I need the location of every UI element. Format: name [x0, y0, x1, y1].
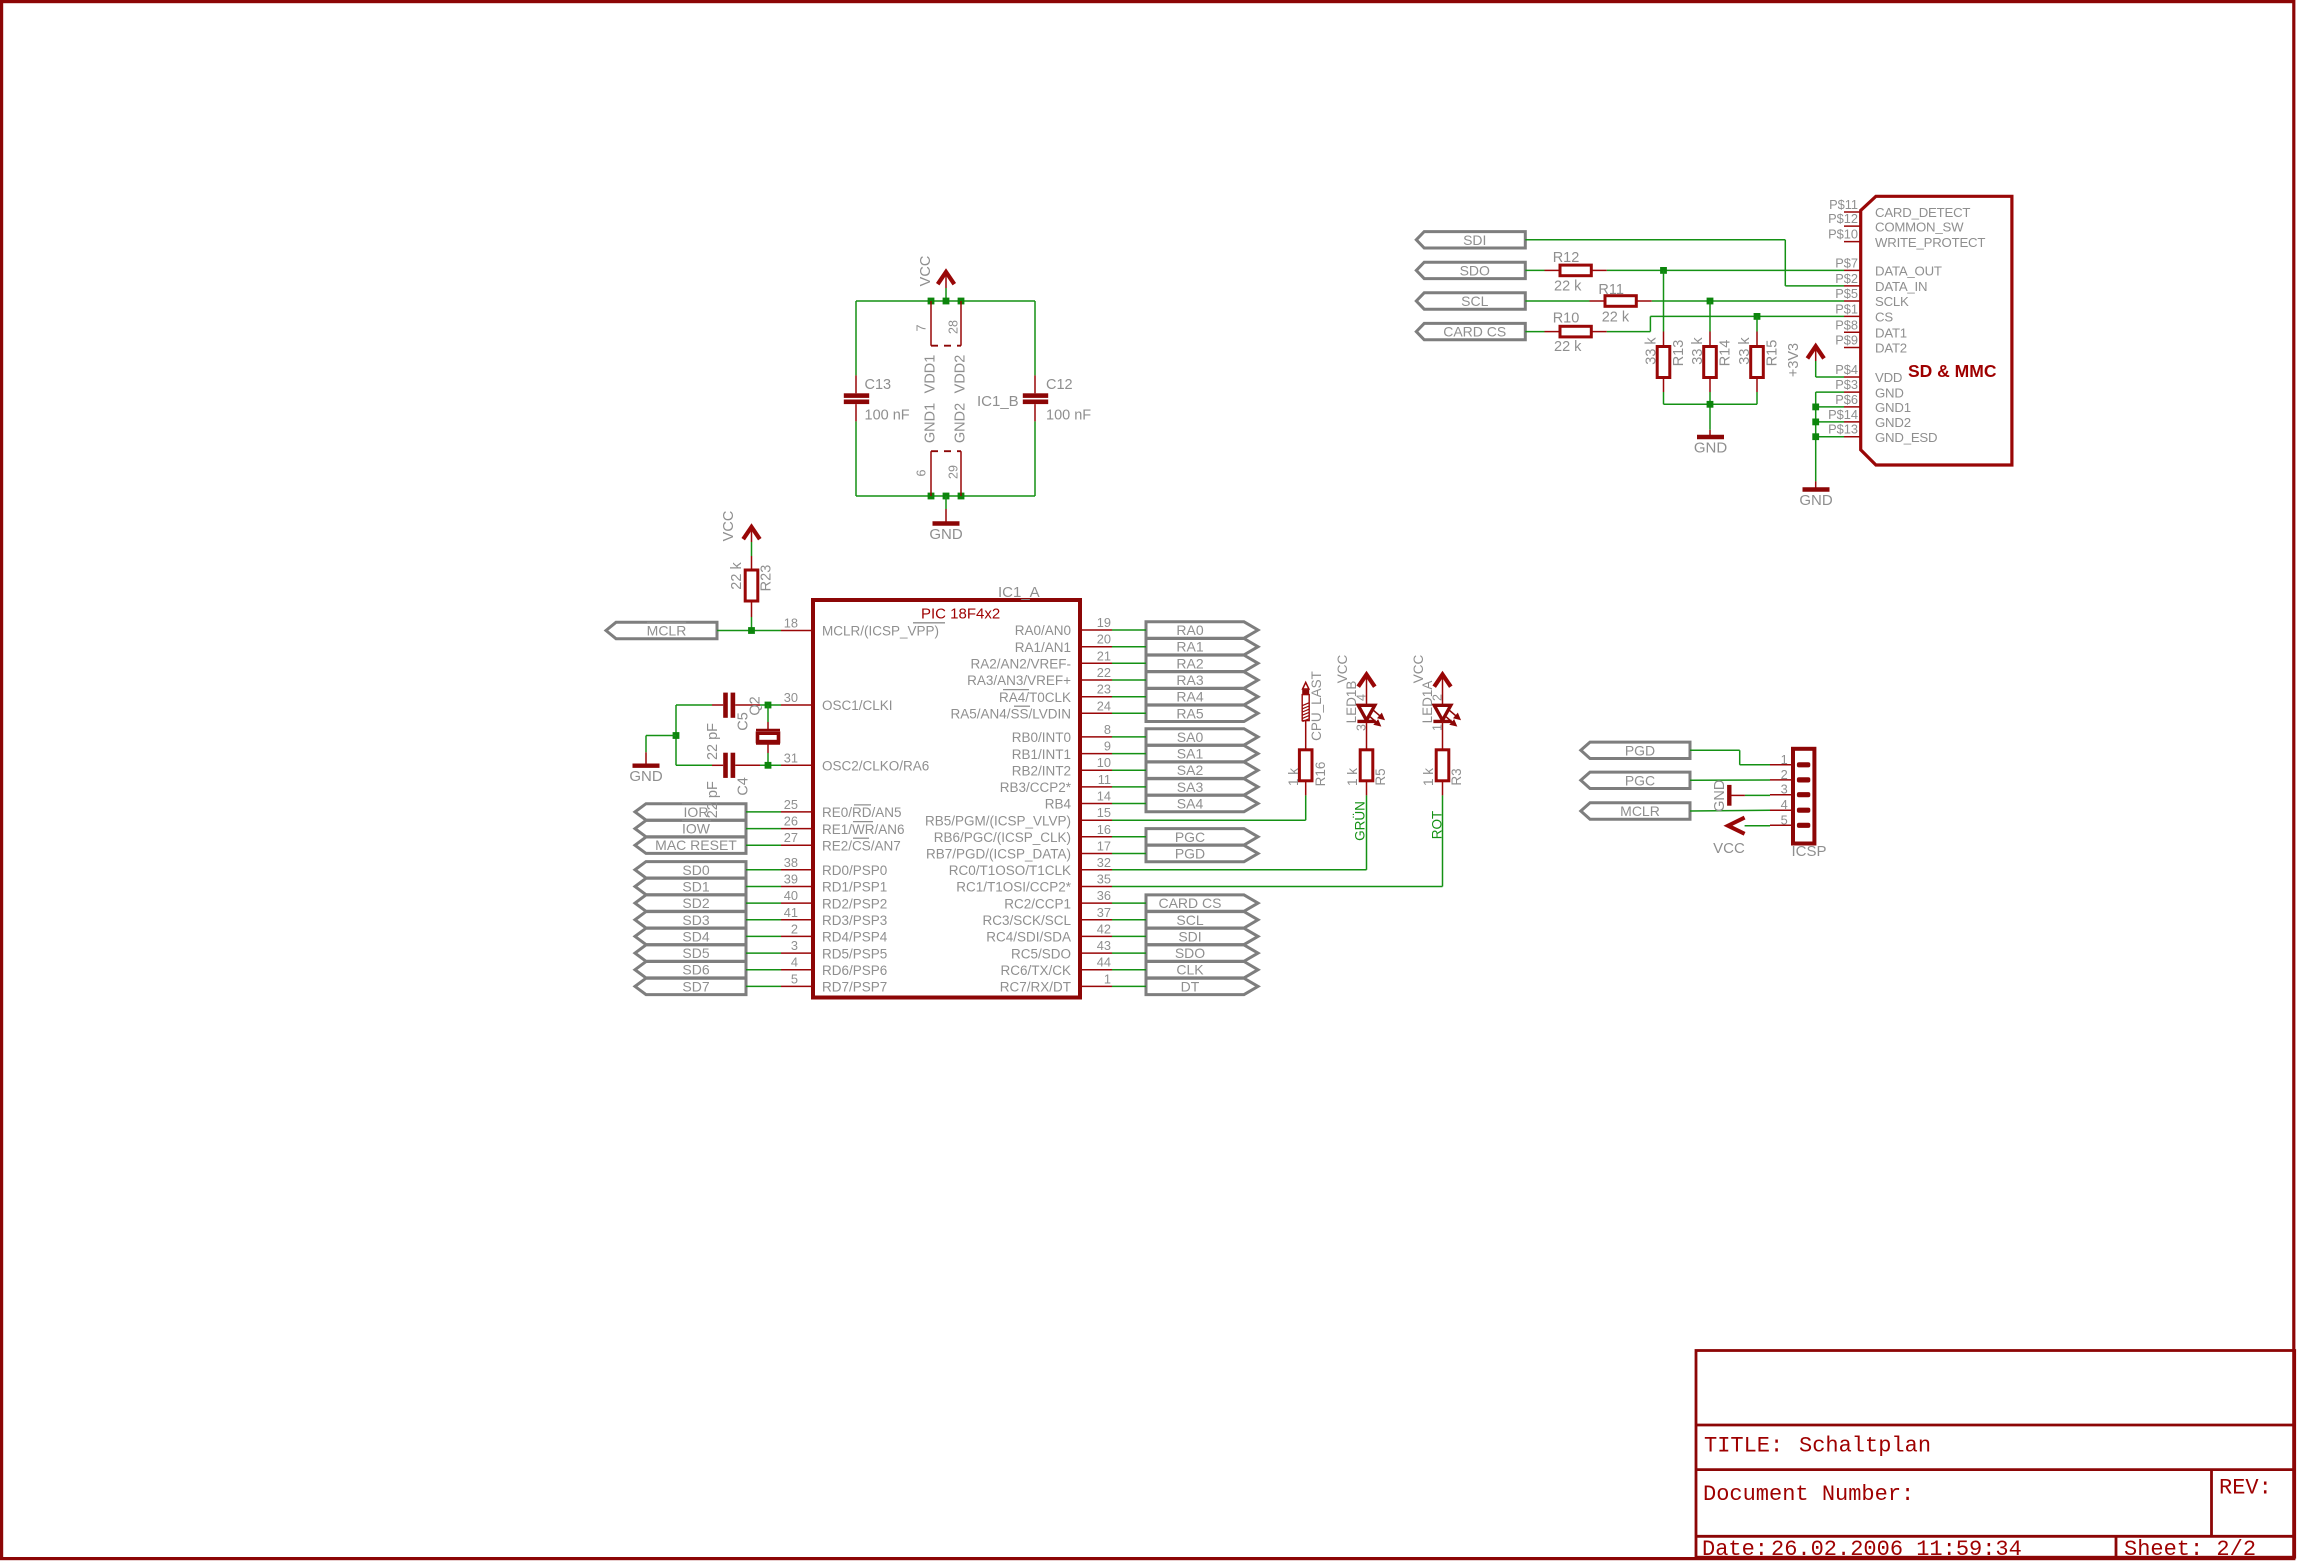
svg-text:RC3/SCK/SCL: RC3/SCK/SCL: [982, 913, 1071, 928]
power symbol VCC above R23: [721, 511, 760, 556]
svg-text:SD3: SD3: [682, 912, 709, 928]
node SDO flag: [1146, 945, 1258, 961]
svg-text:R5: R5: [1373, 768, 1388, 785]
svg-text:RA1: RA1: [1176, 639, 1203, 655]
svg-text:11: 11: [1098, 772, 1111, 787]
svg-text:SD2: SD2: [682, 895, 709, 911]
svg-text:33 k: 33 k: [1643, 337, 1659, 365]
svg-text:3: 3: [1781, 782, 1788, 797]
svg-text:+3V3: +3V3: [1786, 343, 1802, 377]
connector J1 SD & MMC body: [1861, 196, 2012, 465]
IC1_A pin 22 RA3/AN3/VREF+: [967, 665, 1112, 688]
svg-text:DATA_OUT: DATA_OUT: [1875, 264, 1942, 279]
svg-text:VDD: VDD: [1875, 370, 1902, 385]
node IOR flag: [635, 804, 746, 820]
svg-text:ROT: ROT: [1430, 811, 1445, 840]
svg-text:RB1/INT1: RB1/INT1: [1012, 747, 1071, 762]
svg-text:RE0/RD/AN5: RE0/RD/AN5: [822, 805, 902, 820]
svg-text:R12: R12: [1553, 250, 1580, 266]
svg-text:R14: R14: [1718, 340, 1734, 367]
svg-text:3: 3: [791, 938, 798, 953]
svg-text:RB2/INT2: RB2/INT2: [1012, 763, 1071, 778]
node RA1 flag: [1146, 639, 1258, 655]
svg-text:SD4: SD4: [682, 928, 709, 944]
wire PGC from IC1_A: [1112, 836, 1146, 838]
svg-text:24: 24: [1097, 698, 1111, 713]
node RA5 flag: [1146, 705, 1258, 721]
wire VCC rail of IC1_B: [856, 301, 1035, 375]
svg-text:SDO: SDO: [1175, 945, 1205, 961]
IC1_A pin 31 OSC2/CLKO/RA6: [781, 750, 929, 773]
wire GRUEN net R5 to IC1_A pin 32: [1112, 795, 1367, 869]
svg-text:37: 37: [1097, 905, 1111, 920]
wire RA1 from IC1_A: [1112, 646, 1146, 648]
wire R16 to IC1_A pin 15: [1112, 795, 1306, 820]
svg-text:1 k: 1 k: [1345, 768, 1360, 786]
svg-text:RC4/SDI/SDA: RC4/SDI/SDA: [986, 930, 1071, 945]
svg-text:RB6/PGC/(ICSP_CLK): RB6/PGC/(ICSP_CLK): [934, 830, 1071, 845]
wire RA5 from IC1_A: [1112, 712, 1146, 714]
IC1_A pin 36 RC2/CCP1: [1004, 888, 1112, 911]
junction dot pulldown rail: [1707, 401, 1714, 408]
resistor R11 22 k: [1525, 282, 1652, 325]
J1 pin P$13 GND_ESD: [1828, 422, 1937, 445]
IC1_A pin 11 RB3/CCP2*: [1000, 772, 1112, 795]
svg-text:RA3: RA3: [1176, 672, 1203, 688]
wire SA3 from IC1_A: [1112, 786, 1146, 788]
svg-text:CLK: CLK: [1176, 962, 1204, 978]
IC1_A pin 27 RE2/CS/AN7: [781, 830, 901, 853]
svg-text:R3: R3: [1449, 768, 1464, 785]
svg-text:RA2/AN2/VREF-: RA2/AN2/VREF-: [970, 657, 1071, 672]
svg-text:100 nF: 100 nF: [865, 408, 910, 424]
svg-text:IOW: IOW: [682, 821, 711, 837]
svg-text:VCC: VCC: [918, 256, 934, 287]
node SDI flag: [1146, 928, 1258, 944]
J1 pin P$2 DATA_IN: [1835, 271, 1927, 294]
IC1_A pin 21 RA2/AN2/VREF-: [970, 648, 1112, 671]
svg-text:4: 4: [1781, 797, 1788, 812]
svg-text:RB5/PGM/(ICSP_VLVP): RB5/PGM/(ICSP_VLVP): [925, 813, 1071, 828]
node DT flag: [1146, 978, 1258, 994]
svg-text:MCLR: MCLR: [647, 623, 687, 639]
IC1_A pin 35 RC1/T1OSI/CCP2*: [956, 872, 1112, 895]
J1 pin P$11 CARD_DETECT: [1829, 197, 1970, 220]
svg-text:P$13: P$13: [1828, 422, 1858, 437]
wire PGD from IC1_A: [1112, 853, 1146, 855]
svg-text:RA5: RA5: [1176, 705, 1203, 721]
svg-text:1 k: 1 k: [1286, 768, 1301, 786]
svg-text:39: 39: [784, 872, 798, 887]
svg-text:RD5/PSP5: RD5/PSP5: [822, 946, 887, 961]
svg-text:RA3/AN3/VREF+: RA3/AN3/VREF+: [967, 673, 1071, 688]
IC1_A pin 38 RD0/PSP0: [781, 855, 887, 878]
wire MAC RESET to IC1_A: [746, 844, 781, 846]
svg-text:RC5/SDO: RC5/SDO: [1011, 946, 1071, 961]
capacitor C4 22 pF: [705, 753, 751, 819]
wire SA1 from IC1_A: [1112, 753, 1146, 755]
svg-text:TITLE:: TITLE:: [1704, 1434, 1783, 1459]
svg-text:RD6/PSP6: RD6/PSP6: [822, 963, 887, 978]
IC1_A pin 41 RD3/PSP3: [781, 905, 887, 928]
wire SCL from IC1_A: [1112, 919, 1146, 921]
svg-text:36: 36: [1097, 888, 1111, 903]
power symbol +3V3: [1786, 343, 1844, 377]
wire SDO to DATA_OUT: [1607, 269, 1844, 271]
wire SD3 to IC1_A: [746, 919, 781, 921]
svg-text:32: 32: [1097, 855, 1111, 870]
node CARD CS flag: [1146, 895, 1258, 911]
svg-text:SCL: SCL: [1461, 293, 1488, 309]
IC1_A pin 10 RB2/INT2: [1012, 755, 1112, 778]
IC1_A pin 44 RC6/TX/CK: [1000, 955, 1112, 978]
svg-text:29: 29: [947, 465, 961, 479]
svg-text:SA3: SA3: [1177, 779, 1204, 795]
power symbol VCC at ICSP pin 5: [1713, 818, 1770, 857]
IC1_A pin 23 RA4/T0CLK: [999, 682, 1112, 705]
svg-text:100 nF: 100 nF: [1046, 408, 1091, 424]
svg-text:C12: C12: [1046, 377, 1073, 393]
J1 pin P$14 GND2: [1828, 407, 1911, 430]
svg-text:P$4: P$4: [1835, 362, 1858, 377]
svg-text:RB3/CCP2*: RB3/CCP2*: [1000, 780, 1072, 795]
svg-text:8: 8: [1104, 722, 1111, 737]
wire SD card ground column: [1816, 392, 1844, 481]
junction dot SCL/R14: [1707, 298, 1714, 305]
svg-text:R23: R23: [759, 565, 775, 592]
svg-text:CARD_DETECT: CARD_DETECT: [1875, 205, 1970, 220]
ICSP pin 3: [1770, 782, 1810, 798]
IC1_B VDD pins 7 and 28: [915, 301, 969, 393]
svg-text:SDI: SDI: [1178, 928, 1201, 944]
node SD6 flag: [635, 962, 746, 978]
ground symbol at oscillator: [629, 736, 676, 786]
svg-text:SD & MMC: SD & MMC: [1908, 361, 1997, 381]
ICSP pin 2: [1770, 767, 1810, 783]
svg-text:P$1: P$1: [1835, 301, 1858, 316]
svg-text:RA0: RA0: [1176, 622, 1203, 638]
IC1_A pin 40 RD2/PSP2: [781, 888, 887, 911]
svg-text:R13: R13: [1671, 340, 1687, 367]
svg-text:1 k: 1 k: [1421, 768, 1436, 786]
svg-text:SD5: SD5: [682, 945, 709, 961]
svg-text:DT: DT: [1181, 978, 1200, 994]
svg-text:GND: GND: [929, 526, 963, 543]
resistor R12 22 k: [1525, 250, 1607, 295]
svg-text:PGD: PGD: [1175, 846, 1205, 862]
svg-text:RD4/PSP4: RD4/PSP4: [822, 930, 888, 945]
svg-text:28: 28: [947, 320, 961, 334]
node SA2 flag: [1146, 762, 1258, 778]
wire OSC2 net: [676, 764, 781, 766]
svg-text:27: 27: [784, 830, 798, 845]
svg-text:MAC RESET: MAC RESET: [655, 837, 737, 853]
wire PGD to ICSP pin 1: [1690, 750, 1770, 765]
svg-text:GND: GND: [1799, 492, 1833, 509]
ICSP pin 1: [1770, 752, 1810, 768]
svg-text:21: 21: [1097, 648, 1111, 663]
node PGD flag: [1581, 742, 1690, 758]
svg-text:P$11: P$11: [1829, 197, 1858, 212]
junction dot OSC2: [765, 762, 772, 769]
svg-text:C13: C13: [865, 377, 892, 393]
node IOW flag: [635, 820, 746, 836]
wire SD1 to IC1_A: [746, 886, 781, 888]
svg-text:MCLR: MCLR: [1620, 803, 1660, 819]
IC1_A pin 4 RD6/PSP6: [781, 955, 887, 978]
node MCLR flag: [606, 622, 717, 638]
svg-text:SA4: SA4: [1177, 796, 1204, 812]
svg-text:22: 22: [1097, 665, 1111, 680]
wire SA0 from IC1_A: [1112, 736, 1146, 738]
svg-text:RD1/PSP1: RD1/PSP1: [822, 880, 887, 895]
wire RA3 from IC1_A: [1112, 679, 1146, 681]
junction MCLR/R23: [748, 627, 755, 634]
svg-text:GND: GND: [1875, 385, 1904, 400]
svg-text:GND2: GND2: [953, 403, 969, 443]
wire CARD CS from IC1_A: [1112, 902, 1146, 904]
svg-text:RB4: RB4: [1045, 797, 1072, 812]
svg-text:33 k: 33 k: [1737, 337, 1753, 365]
IC1_A pin 5 RD7/PSP7: [781, 971, 887, 994]
svg-text:C4: C4: [735, 777, 751, 796]
node CARD CS flag: [1416, 323, 1525, 339]
svg-text:RE1/WR/AN6: RE1/WR/AN6: [822, 822, 905, 837]
svg-text:RB7/PGD/(ICSP_DATA): RB7/PGD/(ICSP_DATA): [926, 847, 1071, 862]
IC1_A pin 42 RC4/SDI/SDA: [986, 921, 1112, 944]
junction dots on GND rail: [928, 493, 965, 500]
svg-text:VDD2: VDD2: [953, 355, 969, 394]
node SCL flag: [1416, 293, 1525, 309]
node SA1 flag: [1146, 745, 1258, 761]
svg-text:WRITE_PROTECT: WRITE_PROTECT: [1875, 235, 1985, 250]
wire SD2 to IC1_A: [746, 902, 781, 904]
svg-text:GND1: GND1: [1875, 400, 1911, 415]
svg-text:IC1_A: IC1_A: [998, 584, 1040, 601]
svg-text:20: 20: [1097, 632, 1111, 647]
node RA3 flag: [1146, 672, 1258, 688]
svg-text:PGC: PGC: [1625, 772, 1655, 788]
svg-text:26: 26: [784, 814, 798, 829]
node SD1 flag: [635, 878, 746, 894]
svg-text:44: 44: [1097, 955, 1111, 970]
svg-text:DAT1: DAT1: [1875, 326, 1907, 341]
svg-text:GND2: GND2: [1875, 415, 1911, 430]
wire SCL to SCLK: [1652, 300, 1844, 302]
svg-text:22 k: 22 k: [1554, 339, 1582, 355]
wire GND rail of IC1_B: [856, 421, 1035, 496]
wire IOR to IC1_A: [746, 811, 781, 813]
svg-text:RC0/T1OSO/T1CLK: RC0/T1OSO/T1CLK: [949, 863, 1071, 878]
svg-text:23: 23: [1097, 682, 1111, 697]
overline marks on RA4 and SS: [1003, 690, 1030, 707]
resistor R15 33 k: [1737, 316, 1781, 392]
wire SDI to DATA_IN: [1525, 240, 1844, 286]
svg-text:REV:: REV:: [2219, 1476, 2272, 1501]
IC1_B GND pins 6 and 29: [915, 403, 969, 496]
resistor R5 1 k: [1345, 750, 1388, 796]
svg-text:14: 14: [1097, 789, 1111, 804]
svg-text:42: 42: [1097, 921, 1111, 936]
resistor R13 33 k: [1643, 270, 1687, 392]
node SA0 flag: [1146, 729, 1258, 745]
node SD7 flag: [635, 978, 746, 994]
svg-text:RA2: RA2: [1176, 655, 1203, 671]
svg-text:31: 31: [784, 750, 798, 765]
svg-text:10: 10: [1097, 755, 1111, 770]
svg-text:SA0: SA0: [1177, 729, 1204, 745]
IC1_A pin 2 RD4/PSP4: [781, 921, 888, 944]
node SA4 flag: [1146, 795, 1258, 811]
wire CARD CS to CS pin: [1607, 316, 1844, 331]
J1 pin P$3 GND: [1835, 377, 1904, 400]
IC1_A pin 17 RB7/PGD/(ICSP_DATA): [926, 839, 1112, 862]
svg-text:RD2/PSP2: RD2/PSP2: [822, 896, 887, 911]
svg-text:GND_ESD: GND_ESD: [1875, 430, 1937, 445]
svg-text:OSC1/CLKI: OSC1/CLKI: [822, 698, 893, 713]
svg-text:RC7/RX/DT: RC7/RX/DT: [1000, 980, 1071, 995]
J1 pin P$5 SCLK: [1835, 286, 1909, 309]
svg-text:SDO: SDO: [1460, 262, 1490, 278]
ICSP pin 4: [1770, 797, 1810, 813]
IC1_A pin 25 RE0/RD/AN5: [781, 797, 902, 820]
wire PGC to ICSP pin 2: [1690, 779, 1770, 781]
svg-text:CARD CS: CARD CS: [1158, 895, 1221, 911]
node PGC flag: [1146, 829, 1258, 845]
IC1_A pin 20 RA1/AN1: [1015, 632, 1112, 655]
svg-text:Q2: Q2: [748, 696, 764, 715]
svg-text:SD6: SD6: [682, 962, 709, 978]
wire ROT net R3 to IC1_A pin 35: [1112, 795, 1445, 886]
svg-text:5: 5: [1781, 812, 1788, 827]
svg-text:VCC: VCC: [721, 511, 737, 542]
svg-text:RA0/AN0: RA0/AN0: [1015, 623, 1071, 638]
svg-text:GND: GND: [1694, 440, 1728, 457]
svg-text:18: 18: [784, 616, 798, 631]
wire SA4 from IC1_A: [1112, 803, 1146, 805]
svg-text:19: 19: [1097, 615, 1111, 630]
svg-text:R15: R15: [1765, 340, 1781, 367]
svg-text:P$9: P$9: [1835, 333, 1858, 348]
ground symbol below pulldown resistors: [1694, 430, 1728, 457]
node SD5 flag: [635, 945, 746, 961]
svg-text:2: 2: [1781, 767, 1788, 782]
svg-text:OSC2/CLKO/RA6: OSC2/CLKO/RA6: [822, 759, 929, 774]
wire RA4 from IC1_A: [1112, 696, 1146, 698]
wire SD5 to IC1_A: [746, 952, 781, 954]
wire OSC1 net: [676, 705, 781, 765]
svg-text:RA5/AN4/SS/LVDIN: RA5/AN4/SS/LVDIN: [950, 707, 1071, 722]
J1 pin P$7 DATA_OUT: [1835, 255, 1942, 278]
svg-text:VCC: VCC: [1335, 655, 1350, 684]
svg-text:2: 2: [791, 921, 798, 936]
svg-text:GRÜN: GRÜN: [1352, 801, 1367, 841]
power symbol VCC above LED1A: [1411, 655, 1451, 706]
node RA2 flag: [1146, 655, 1258, 671]
IC1_A pin 18 MCLR/(ICSP_VPP): [781, 616, 939, 639]
svg-text:35: 35: [1097, 872, 1111, 887]
junction dot oscillator GND leg: [673, 732, 680, 739]
node SDO flag: [1416, 262, 1525, 278]
wire SD4 to IC1_A: [746, 935, 781, 937]
IC1_A pin 24 RA5/AN4/SS/LVDIN: [950, 698, 1112, 721]
svg-text:33 k: 33 k: [1690, 337, 1706, 365]
IC1_A pin 15 RB5/PGM/(ICSP_VLVP): [925, 805, 1112, 828]
J1 pin P$1 CS: [1835, 301, 1893, 324]
resistor R3 1 k: [1421, 750, 1464, 796]
power symbol VCC above LED1B: [1335, 655, 1375, 706]
IC1_A pin 26 RE1/WR/AN6: [781, 814, 905, 837]
node RA4 flag: [1146, 689, 1258, 705]
svg-text:PGD: PGD: [1625, 742, 1655, 758]
test pad CPU_LAST: [1302, 671, 1324, 741]
node PGC flag: [1581, 772, 1690, 788]
junction dots SD ground column: [1812, 404, 1819, 441]
wire RA2 from IC1_A: [1112, 662, 1146, 664]
node RA0 flag: [1146, 622, 1258, 638]
svg-text:RA4/T0CLK: RA4/T0CLK: [999, 690, 1071, 705]
svg-text:ICSP: ICSP: [1792, 843, 1827, 860]
capacitor C13 100 nF: [844, 375, 910, 423]
svg-text:6: 6: [915, 469, 929, 476]
svg-text:SD0: SD0: [682, 862, 709, 878]
svg-text:PGC: PGC: [1175, 829, 1205, 845]
svg-text:RD3/PSP3: RD3/PSP3: [822, 913, 887, 928]
node SD4 flag: [635, 928, 746, 944]
node CLK flag: [1146, 962, 1258, 978]
LED LED1A: [1420, 681, 1460, 750]
IC1_A pin 32 RC0/T1OSO/T1CLK: [949, 855, 1112, 878]
svg-text:SDI: SDI: [1463, 232, 1486, 248]
IC1_A pin 30 OSC1/CLKI: [781, 690, 893, 713]
ground symbol at ICSP pin 3: [1712, 780, 1770, 812]
ICSP pin 5: [1770, 812, 1810, 828]
node SDI flag: [1416, 232, 1525, 248]
svg-text:GND1: GND1: [923, 403, 939, 443]
crystal Q2: [748, 696, 781, 765]
resistor R14 33 k: [1690, 301, 1734, 392]
svg-text:5: 5: [791, 971, 798, 986]
junction dot SDO/R13: [1660, 267, 1667, 274]
J1 pin P$9 DAT2: [1835, 333, 1907, 356]
ground symbol below SD card: [1799, 481, 1833, 509]
svg-text:R10: R10: [1553, 311, 1580, 327]
svg-text:RD0/PSP0: RD0/PSP0: [822, 863, 887, 878]
IC1_A pin 37 RC3/SCK/SCL: [982, 905, 1112, 928]
J1 pin P$6 GND1: [1835, 392, 1911, 415]
IC1_A pin 43 RC5/SDO: [1011, 938, 1112, 961]
svg-text:26.02.2006 11:59:34: 26.02.2006 11:59:34: [1771, 1537, 2022, 1562]
title block frame: [1696, 1351, 2295, 1558]
IC1_A pin 3 RD5/PSP5: [781, 938, 887, 961]
wire pulldown rail to ground: [1664, 392, 1758, 430]
svg-text:MCLR/(ICSP_VPP): MCLR/(ICSP_VPP): [822, 624, 939, 639]
svg-text:17: 17: [1097, 839, 1111, 854]
svg-text:SA1: SA1: [1177, 746, 1204, 762]
wire DT from IC1_A: [1112, 985, 1146, 987]
svg-text:22 k: 22 k: [1554, 279, 1582, 295]
svg-text:22 k: 22 k: [729, 562, 745, 590]
power symbol VCC (IC1_B): [918, 256, 954, 301]
wire SD7 to IC1_A: [746, 985, 781, 987]
svg-text:4: 4: [791, 955, 798, 970]
svg-text:LED1A: LED1A: [1420, 681, 1435, 724]
svg-text:RA1/AN1: RA1/AN1: [1015, 640, 1071, 655]
overline marks on RE pin names: [853, 805, 873, 838]
svg-text:4: 4: [1355, 694, 1369, 701]
svg-text:GND: GND: [1712, 780, 1728, 812]
svg-text:P$6: P$6: [1835, 392, 1858, 407]
